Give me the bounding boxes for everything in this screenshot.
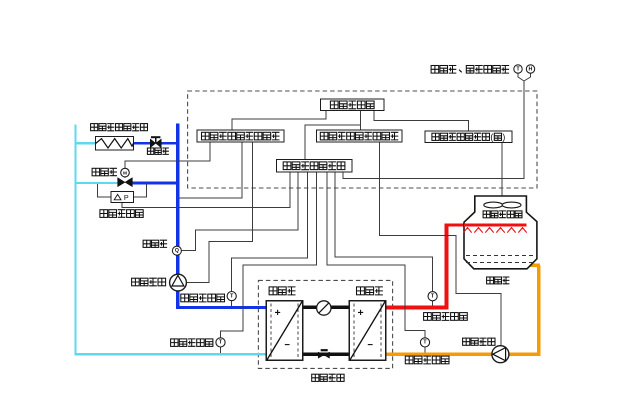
svg-text:): ) xyxy=(502,132,505,142)
svg-text:T: T xyxy=(219,340,223,346)
svg-text:T: T xyxy=(423,340,427,346)
svg-text:P: P xyxy=(124,193,129,202)
svg-text:H: H xyxy=(529,66,533,72)
svg-text:T: T xyxy=(230,293,234,299)
svg-text:T: T xyxy=(431,294,435,300)
svg-text:M: M xyxy=(123,170,127,175)
svg-text:(: ( xyxy=(490,132,493,142)
svg-text:Q: Q xyxy=(175,248,179,254)
